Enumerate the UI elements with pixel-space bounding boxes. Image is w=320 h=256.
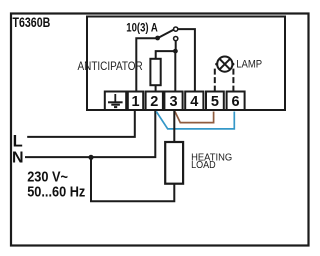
wire terminal 1 to switch pivot <box>136 38 157 91</box>
terminal 2 <box>146 92 163 111</box>
label HEATING LOAD <box>191 153 232 171</box>
switch SW1 <box>155 27 178 41</box>
svg-text:50...60 Hz: 50...60 Hz <box>27 185 85 201</box>
svg-text:T6360B: T6360B <box>13 14 51 30</box>
svg-text:6: 6 <box>232 94 240 110</box>
wire brown terminal 3 to terminal 5 <box>175 112 214 123</box>
wire N junction to heating load bottom <box>91 157 174 201</box>
wire N to terminal 2 <box>25 110 155 157</box>
wire junction to terminal 3 <box>174 51 176 91</box>
wire switch lower contact to junction <box>175 41 177 51</box>
svg-text:N: N <box>12 150 24 167</box>
terminal 5 <box>206 92 224 111</box>
node N junction <box>88 155 93 160</box>
svg-text:4: 4 <box>190 94 198 110</box>
terminal earth <box>105 92 126 111</box>
wire blue terminal 2 to terminal 6 <box>156 112 234 129</box>
lamp <box>215 57 234 72</box>
wire switch top contact to terminal 4 <box>178 29 195 91</box>
svg-text:LAMP: LAMP <box>236 59 262 71</box>
svg-text:2: 2 <box>150 94 158 110</box>
thermostat box outline <box>87 17 285 111</box>
dashed wire lamp to terminal 6 <box>232 69 234 92</box>
wire junction to anticipator <box>156 51 176 59</box>
svg-text:ANTICIPATOR: ANTICIPATOR <box>78 59 143 73</box>
svg-text:LOAD: LOAD <box>191 160 216 171</box>
terminal 6 <box>227 92 245 111</box>
node junction above terminal 3 <box>173 49 178 54</box>
svg-text:3: 3 <box>169 94 177 110</box>
terminal 4 <box>185 92 203 111</box>
svg-text:1: 1 <box>131 94 139 110</box>
terminal 1 <box>128 92 143 111</box>
heating load resistor <box>165 142 183 184</box>
dashed wire lamp to terminal 5 <box>214 69 216 92</box>
wire terminal 3 to heating load top <box>173 110 175 142</box>
svg-text:10(3) A: 10(3) A <box>126 20 158 34</box>
wire anticipator to terminal 2 <box>155 85 157 91</box>
svg-text:230 V~: 230 V~ <box>27 169 68 185</box>
wire L to terminal 1 <box>27 110 135 137</box>
anticipator resistor <box>150 59 160 85</box>
terminal 3 <box>164 92 182 111</box>
svg-text:L: L <box>13 132 23 150</box>
svg-text:5: 5 <box>211 94 219 110</box>
